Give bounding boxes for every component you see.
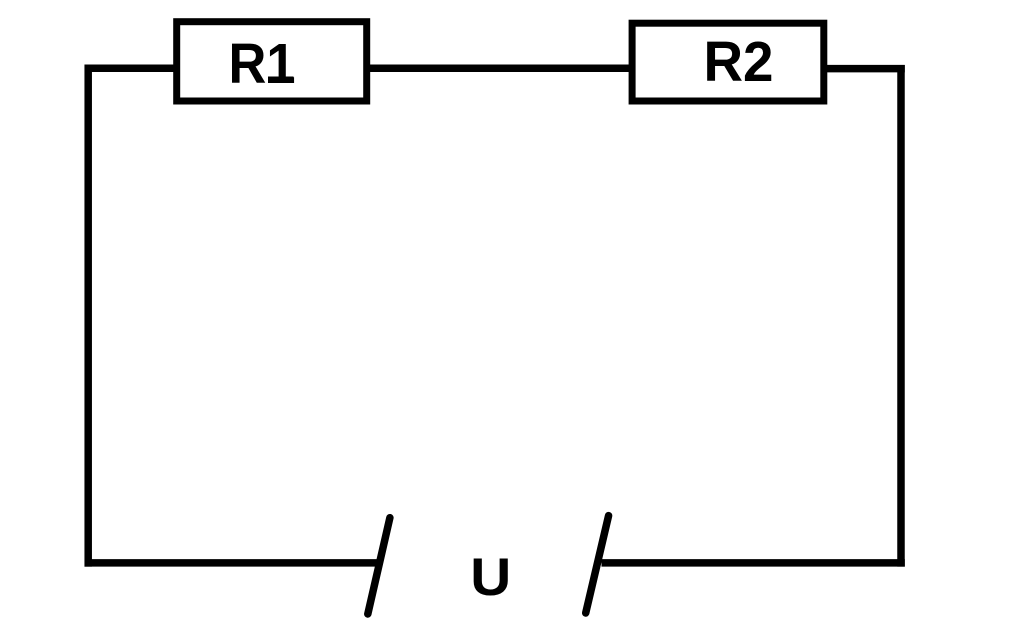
voltage source U plate right — [586, 516, 609, 613]
svg-text:U: U — [470, 548, 511, 607]
wire top-left (left wire to R1) — [85, 64, 177, 72]
resistor R1 — [177, 22, 367, 101]
wire R1 to R2 — [367, 64, 632, 72]
resistor R2 — [632, 23, 824, 101]
wire right vertical — [897, 65, 905, 567]
wire R2 to right vertical — [824, 65, 905, 73]
svg-text:R1: R1 — [229, 32, 296, 96]
voltage source U plate left — [368, 518, 390, 614]
wire left vertical — [84, 65, 92, 567]
wire bottom-right (from voltage source) — [602, 559, 905, 567]
label R1 digit foot serif — [268, 77, 294, 84]
svg-text:R2: R2 — [704, 30, 774, 94]
wire bottom-left (to voltage source) — [85, 559, 380, 567]
